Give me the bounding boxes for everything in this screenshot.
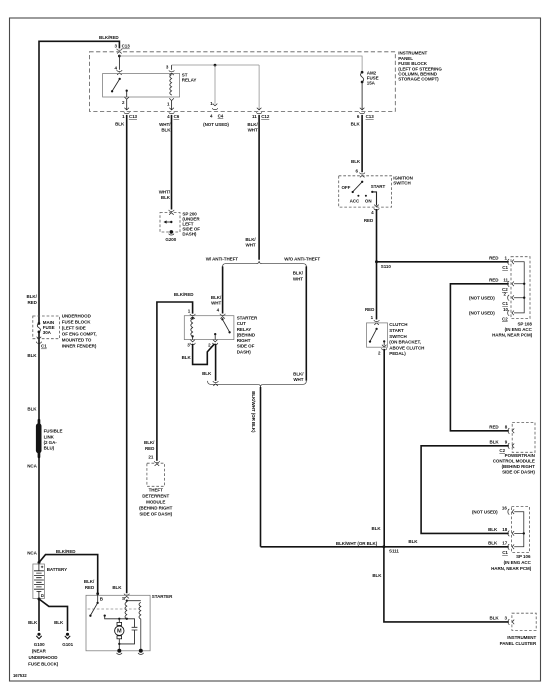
connector C1 (underhood fuse block) bbox=[37, 337, 42, 339]
svg-text:WHT: WHT bbox=[248, 127, 258, 132]
starter cut relay switch bbox=[221, 318, 223, 320]
wire fuse block internal bus to AM2 fuse bbox=[119, 56, 362, 72]
wire battery negative to G101 bbox=[39, 599, 68, 631]
svg-text:BLK/: BLK/ bbox=[293, 271, 304, 276]
svg-text:DETERRENT: DETERRENT bbox=[142, 493, 169, 498]
svg-text:PEDAL): PEDAL) bbox=[389, 351, 406, 356]
SP 106 internal bus bbox=[514, 512, 524, 547]
svg-text:BLK: BLK bbox=[28, 620, 38, 625]
svg-text:G101: G101 bbox=[62, 642, 73, 647]
svg-text:HARN, NEAR PCM): HARN, NEAR PCM) bbox=[492, 333, 533, 338]
svg-text:RED: RED bbox=[27, 300, 37, 305]
starter box bbox=[86, 595, 150, 651]
splice SP 108 (dashed box) bbox=[511, 257, 530, 319]
ST relay switch contacts bbox=[119, 78, 121, 80]
wire W/ anti-theft branch down to starter cut relay pin 4 bbox=[222, 266, 224, 313]
svg-text:RELAY: RELAY bbox=[237, 327, 252, 332]
svg-text:MOUNTED TO: MOUNTED TO bbox=[62, 338, 92, 343]
wire BLK/RED battery to starter B terminal bbox=[39, 555, 98, 593]
svg-text:BATTERY: BATTERY bbox=[47, 567, 67, 572]
ground G100 bbox=[36, 633, 41, 639]
starter cut relay coil bbox=[192, 317, 194, 319]
wire BLK bus from bracket through S111 to SP106 pin 17 bbox=[261, 546, 509, 548]
svg-text:FUSIBLE: FUSIBLE bbox=[44, 429, 63, 434]
svg-text:(BEHIND RIGHT: (BEHIND RIGHT bbox=[139, 505, 173, 510]
connector C1 pin 1 (SP 108) bbox=[508, 259, 514, 264]
wire battery negative to G100 bbox=[38, 599, 40, 631]
wire RED S110 down to clutch start switch bbox=[376, 262, 378, 320]
connector C1 pin 17 (SP 106) bbox=[508, 544, 514, 549]
svg-text:BLK: BLK bbox=[488, 541, 498, 546]
svg-text:THEFT: THEFT bbox=[149, 487, 164, 492]
svg-text:(NOT USED): (NOT USED) bbox=[203, 122, 229, 127]
svg-text:S: S bbox=[122, 596, 125, 601]
svg-text:RED: RED bbox=[489, 256, 499, 261]
svg-text:BLK/: BLK/ bbox=[84, 579, 95, 584]
svg-text:C4: C4 bbox=[218, 114, 224, 119]
svg-text:(LEFT SIDE: (LEFT SIDE bbox=[62, 326, 86, 331]
connector at starter S terminal bbox=[124, 594, 129, 599]
wire to C12 bbox=[258, 65, 260, 110]
svg-text:BLK/RED: BLK/RED bbox=[174, 292, 194, 297]
node starter B terminal bbox=[96, 592, 99, 595]
node dots on motor feed bbox=[118, 618, 120, 620]
svg-text:INNER FENDER): INNER FENDER) bbox=[62, 344, 97, 349]
pin 3 connector bbox=[190, 340, 195, 342]
connector at ignition switch bbox=[360, 173, 365, 178]
svg-text:UNDERHOOD: UNDERHOOD bbox=[62, 314, 92, 319]
svg-text:STARTER: STARTER bbox=[152, 594, 173, 599]
pin 2 connector bbox=[213, 340, 218, 342]
svg-text:OF ENG COMPT,: OF ENG COMPT, bbox=[62, 332, 97, 337]
svg-text:M: M bbox=[117, 629, 122, 635]
svg-text:BLK: BLK bbox=[202, 371, 212, 376]
connector C2 pin 9 (PCM) bbox=[508, 443, 514, 448]
svg-text:NCA: NCA bbox=[27, 551, 37, 556]
wire stub to C4 (not used) bbox=[214, 65, 216, 104]
svg-text:ON: ON bbox=[365, 199, 372, 204]
svg-text:POWERTRAIN: POWERTRAIN bbox=[505, 453, 535, 458]
svg-text:RED: RED bbox=[85, 585, 95, 590]
svg-text:WHT: WHT bbox=[293, 276, 303, 281]
wire BLK/WHT (OR BLK) down to S111 bus bbox=[260, 387, 262, 547]
wire BLK clutch switch to S111 bbox=[383, 349, 385, 547]
svg-text:C1: C1 bbox=[502, 301, 508, 306]
svg-text:C12: C12 bbox=[261, 114, 270, 119]
wire BLK/RED feed from battery junction up left side and across top bbox=[39, 41, 119, 562]
svg-text:IGNITION: IGNITION bbox=[393, 175, 413, 180]
clutch switch contacts bbox=[375, 328, 377, 330]
capacitor bbox=[132, 627, 138, 630]
svg-text:BLK/: BLK/ bbox=[293, 371, 304, 376]
svg-text:PANEL CLUSTER: PANEL CLUSTER bbox=[500, 641, 537, 646]
battery bbox=[33, 564, 45, 599]
svg-text:(NOT USED): (NOT USED) bbox=[469, 295, 495, 300]
svg-text:WHT: WHT bbox=[246, 243, 256, 248]
instrument panel cluster (dashed box) bbox=[512, 613, 536, 630]
svg-text:(BEHIND RIGHT: (BEHIND RIGHT bbox=[502, 464, 536, 469]
svg-text:RIGHT: RIGHT bbox=[237, 338, 251, 343]
svg-text:ACC: ACC bbox=[350, 199, 360, 204]
svg-text:SIDE OF DASH): SIDE OF DASH) bbox=[502, 470, 535, 475]
svg-text:SWITCH: SWITCH bbox=[393, 181, 410, 186]
wire ST relay pin 3 up to bus bbox=[171, 65, 173, 70]
powertrain control module (dashed box) bbox=[512, 422, 535, 452]
svg-text:BLK/WHT (OR BLK): BLK/WHT (OR BLK) bbox=[251, 391, 256, 433]
fuse MAIN FUSE 30A bbox=[38, 322, 41, 325]
splice SP 106 (dashed box) bbox=[512, 507, 530, 553]
node: junction dot below C13 feeding bus bbox=[118, 55, 121, 58]
svg-text:SP 108: SP 108 bbox=[517, 322, 532, 327]
svg-text:G200: G200 bbox=[165, 237, 176, 242]
svg-text:S110: S110 bbox=[381, 264, 392, 269]
clutch switch pin 2 connector bbox=[382, 345, 387, 347]
svg-text:RED: RED bbox=[365, 307, 375, 312]
svg-text:(IN ENG ACC: (IN ENG ACC bbox=[505, 327, 533, 332]
theft deterrent module (dashed box) bbox=[147, 463, 165, 486]
wire BLK/WHT from C12-11 down to anti-theft bracket bbox=[258, 115, 260, 260]
svg-text:C1: C1 bbox=[502, 265, 508, 270]
node S111 bbox=[382, 545, 385, 548]
svg-text:16: 16 bbox=[502, 506, 507, 511]
wire AM2 fuse down to C13-6 bbox=[361, 82, 363, 110]
wire RED S110 to SP108 C1-1 bbox=[377, 261, 509, 263]
svg-text:BLK: BLK bbox=[488, 527, 498, 532]
svg-text:(NEAR: (NEAR bbox=[32, 648, 47, 653]
svg-text:(IN ENG ACC: (IN ENG ACC bbox=[504, 560, 532, 565]
svg-text:15A: 15A bbox=[367, 80, 376, 85]
wire W/O anti-theft branch bbox=[305, 266, 307, 380]
svg-text:17: 17 bbox=[502, 541, 507, 546]
svg-text:BLK: BLK bbox=[372, 526, 382, 531]
solenoid windings from S terminal bbox=[126, 600, 128, 602]
svg-text:30A: 30A bbox=[43, 330, 52, 335]
starter switch fixed contact bbox=[104, 614, 106, 616]
inline connector at bracket bbox=[213, 381, 218, 386]
svg-text:(NOT USED): (NOT USED) bbox=[472, 509, 498, 514]
starter case ground terminals bbox=[117, 649, 121, 653]
svg-text:RED: RED bbox=[489, 278, 499, 283]
svg-text:BLK/: BLK/ bbox=[247, 122, 258, 127]
wire RED SP108 C2-11 to PCM pin 8 bbox=[450, 284, 508, 431]
node: splice junction dot bbox=[170, 221, 172, 223]
connector PCM pin 8 bbox=[508, 428, 514, 433]
connector C12 pin 11 at fuse block boundary bbox=[257, 108, 262, 114]
ignition switch (dashed box) bbox=[339, 176, 392, 207]
svg-text:W/O ANTI-THEFT: W/O ANTI-THEFT bbox=[284, 256, 320, 261]
connector C6 pin 4 at fuse block boundary bbox=[169, 108, 174, 114]
node: battery negative junction bbox=[38, 598, 41, 601]
svg-text:MODULE: MODULE bbox=[146, 499, 165, 504]
svg-text:STARTER: STARTER bbox=[237, 316, 258, 321]
underhood fuse block (dashed box) bbox=[33, 316, 60, 339]
svg-text:C1: C1 bbox=[502, 550, 508, 555]
connector C13 pin 6 at fuse block boundary bbox=[360, 108, 365, 114]
svg-text:DASH): DASH) bbox=[237, 349, 252, 354]
svg-text:BLU): BLU) bbox=[44, 446, 55, 451]
svg-text:SIDE OF: SIDE OF bbox=[237, 344, 255, 349]
ignition output connector pin 4 bbox=[374, 205, 379, 207]
connector C4 pin 4 (not used) bbox=[212, 104, 217, 110]
svg-text:ST: ST bbox=[182, 72, 188, 77]
svg-text:HARN, NEAR PCM): HARN, NEAR PCM) bbox=[491, 566, 532, 571]
node S110 bbox=[375, 260, 378, 263]
connector pin 3 (instrument panel cluster) bbox=[508, 619, 514, 624]
connector at theft deterrent module bbox=[154, 461, 159, 466]
svg-text:167532: 167532 bbox=[13, 673, 27, 678]
starter motor M bbox=[118, 619, 120, 623]
svg-text:BLK: BLK bbox=[351, 159, 361, 164]
svg-text:CLUTCH: CLUTCH bbox=[389, 322, 407, 327]
wire RED ignition to S110 bbox=[376, 209, 378, 262]
svg-text:BLK/: BLK/ bbox=[144, 440, 155, 445]
wire ST relay pin 1 down bbox=[169, 98, 174, 100]
wire WHT/BLK from C6-4 down to SP 200 bbox=[171, 115, 173, 210]
wire BLK from C13-6 to ignition switch bbox=[361, 115, 363, 172]
anti-theft option bracket (bottom) bbox=[208, 381, 307, 387]
svg-text:FUSE BLOCK: FUSE BLOCK bbox=[62, 320, 91, 325]
svg-text:C13: C13 bbox=[366, 114, 375, 119]
svg-text:(BEHIND: (BEHIND bbox=[237, 332, 256, 337]
svg-text:CONTROL MODULE: CONTROL MODULE bbox=[493, 459, 535, 464]
svg-text:C6: C6 bbox=[174, 114, 180, 119]
svg-text:DASH): DASH) bbox=[182, 231, 197, 236]
svg-text:BLK/RED: BLK/RED bbox=[99, 35, 119, 40]
svg-text:WHT/: WHT/ bbox=[159, 189, 171, 194]
starter cut relay box bbox=[184, 316, 234, 340]
svg-text:W/ ANTI-THEFT: W/ ANTI-THEFT bbox=[206, 256, 239, 261]
svg-text:BLK: BLK bbox=[112, 585, 122, 590]
svg-text:BLK: BLK bbox=[27, 407, 37, 412]
svg-text:START: START bbox=[371, 184, 386, 189]
svg-text:BLK: BLK bbox=[161, 127, 171, 132]
svg-text:BLK/WHT (OR BLK): BLK/WHT (OR BLK) bbox=[336, 541, 378, 546]
wire junction to ST relay pin 4 bbox=[118, 56, 120, 70]
wire BLK from C13-1 down to starter S terminal bbox=[126, 115, 128, 593]
svg-text:C13: C13 bbox=[122, 44, 131, 49]
svg-text:BLK: BLK bbox=[490, 616, 500, 621]
mechanical linkage (dashed) bbox=[88, 608, 139, 610]
svg-text:(NOT USED): (NOT USED) bbox=[469, 310, 495, 315]
svg-text:C1: C1 bbox=[41, 344, 47, 349]
svg-text:SWITCH: SWITCH bbox=[389, 334, 406, 339]
svg-text:LINK: LINK bbox=[44, 434, 55, 439]
splice SP 200 (dashed box) bbox=[160, 213, 180, 233]
svg-text:FUSE BLOCK): FUSE BLOCK) bbox=[28, 661, 59, 666]
node: battery positive junction bbox=[38, 561, 41, 564]
svg-text:BLK: BLK bbox=[408, 539, 418, 544]
connector pin 18 (SP 106) bbox=[508, 531, 514, 536]
svg-text:BLK/: BLK/ bbox=[245, 237, 256, 242]
svg-text:BLK/RED: BLK/RED bbox=[56, 549, 76, 554]
svg-text:BLK: BLK bbox=[27, 353, 37, 358]
wire BLK starter cut relay pin 2 down to bracket bbox=[215, 344, 217, 381]
svg-text:18: 18 bbox=[502, 527, 507, 532]
svg-text:WHT: WHT bbox=[293, 377, 303, 382]
svg-text:OFF: OFF bbox=[341, 185, 350, 190]
svg-text:RELAY: RELAY bbox=[182, 78, 197, 83]
wire pin 3 jumper to pin 2 bbox=[193, 344, 215, 365]
clutch start switch box bbox=[367, 323, 388, 347]
svg-text:BLK: BLK bbox=[161, 195, 171, 200]
svg-text:SP 106: SP 106 bbox=[516, 554, 531, 559]
svg-text:BLK/: BLK/ bbox=[211, 295, 222, 300]
connector C13 pin 1 at fuse block boundary bbox=[124, 108, 129, 114]
svg-text:C13: C13 bbox=[129, 114, 138, 119]
starter switch blade bbox=[97, 594, 99, 603]
wire BLK PCM pin 9 to SP106 pin 18 bbox=[421, 446, 509, 534]
svg-text:NCA: NCA bbox=[27, 464, 37, 469]
connector at splice SP 200 bbox=[169, 210, 174, 215]
svg-text:RED: RED bbox=[145, 446, 155, 451]
svg-text:S111: S111 bbox=[389, 548, 399, 553]
anti-theft option bracket (top) bbox=[223, 261, 307, 267]
wire ST relay pin 2 down bbox=[126, 91, 128, 97]
svg-text:RED: RED bbox=[364, 218, 374, 223]
svg-text:BLK: BLK bbox=[182, 355, 192, 360]
fuse AM2 15A bbox=[361, 71, 364, 74]
node: junction dot for C4 stub bbox=[214, 64, 217, 67]
hold-in winding coil bbox=[139, 602, 141, 651]
svg-text:BLK: BLK bbox=[372, 573, 382, 578]
pull-in winding coil bbox=[125, 602, 127, 619]
svg-text:C2: C2 bbox=[502, 316, 508, 321]
svg-text:G100: G100 bbox=[34, 642, 45, 647]
svg-text:WHT: WHT bbox=[211, 301, 221, 306]
svg-text:ABOVE CLUTCH: ABOVE CLUTCH bbox=[389, 345, 424, 350]
svg-text:START: START bbox=[389, 328, 404, 333]
svg-text:(2 GA-: (2 GA- bbox=[44, 440, 58, 445]
svg-text:BLK: BLK bbox=[115, 122, 125, 127]
splice branch arrow bbox=[165, 221, 171, 223]
connector at clutch start switch bbox=[374, 320, 379, 325]
svg-text:RED: RED bbox=[489, 425, 499, 430]
svg-text:UNDERHOOD: UNDERHOOD bbox=[29, 655, 59, 660]
svg-text:WHT/: WHT/ bbox=[159, 122, 171, 127]
ignition switch contacts bbox=[361, 181, 363, 183]
SP 108 internal bus bbox=[514, 262, 524, 313]
svg-text:BLK: BLK bbox=[54, 620, 64, 625]
wire START contact to output bbox=[372, 192, 376, 206]
wire BLK/RED theft deterrent module to starter cut relay pin 1 bbox=[157, 302, 193, 461]
svg-text:11: 11 bbox=[252, 114, 257, 119]
svg-text:BLK: BLK bbox=[490, 440, 500, 445]
ST relay box bbox=[103, 74, 180, 98]
connector C2 pin 11 (SP 108) bbox=[508, 281, 514, 286]
svg-text:BLK/: BLK/ bbox=[27, 294, 38, 299]
svg-text:SIDE OF DASH): SIDE OF DASH) bbox=[139, 511, 172, 516]
ground G101 bbox=[65, 633, 70, 639]
svg-text:(ON BRACKET,: (ON BRACKET, bbox=[389, 340, 421, 345]
svg-text:21: 21 bbox=[148, 455, 153, 460]
wire BLK S111 to instrument panel cluster bbox=[384, 547, 509, 622]
svg-text:PANEL: PANEL bbox=[398, 56, 413, 61]
svg-text:CUT: CUT bbox=[237, 321, 246, 326]
svg-text:STORAGE COMPT): STORAGE COMPT) bbox=[398, 76, 439, 81]
svg-text:INSTRUMENT: INSTRUMENT bbox=[507, 635, 536, 640]
instrument panel fuse block (dashed box) bbox=[89, 52, 395, 112]
ground G200 bbox=[170, 230, 174, 234]
fusible link (2 GA-BLU) bbox=[38, 419, 41, 425]
svg-text:BLK: BLK bbox=[351, 122, 361, 127]
ST relay coil bbox=[170, 75, 172, 96]
